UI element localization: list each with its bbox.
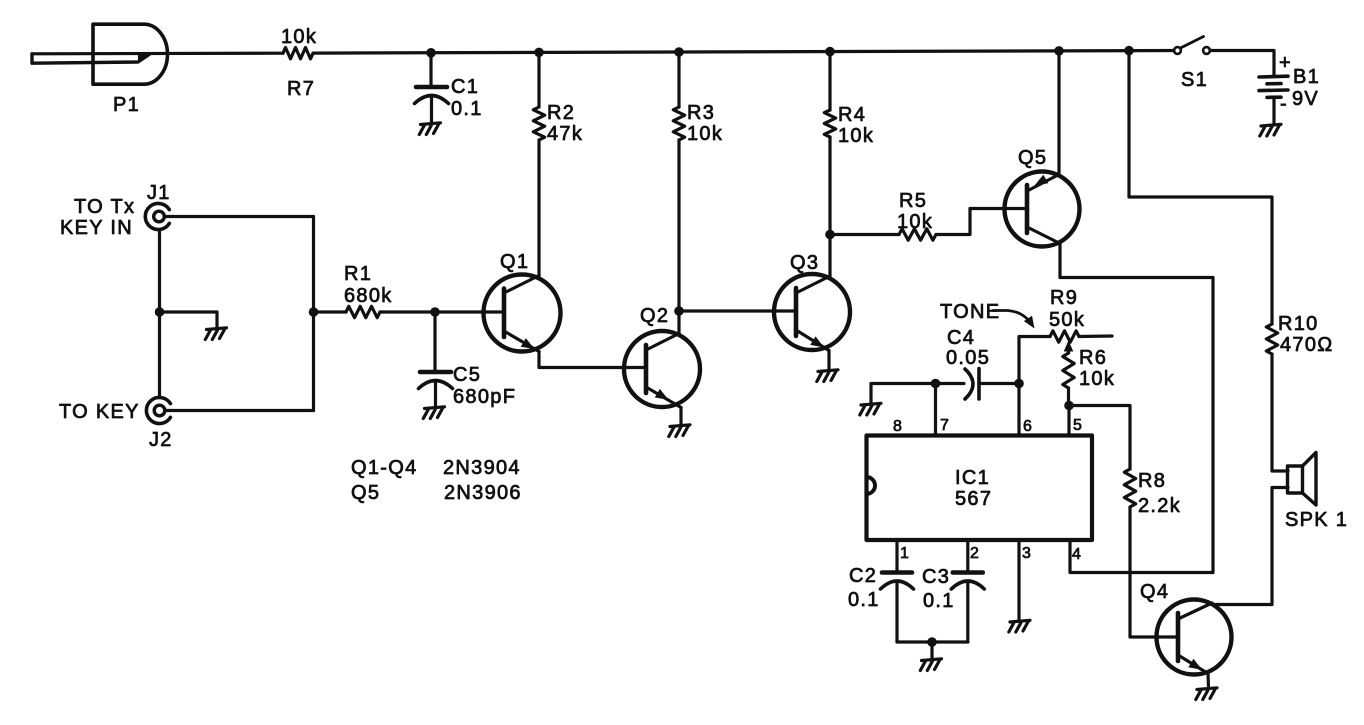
svg-text:C3: C3 (922, 566, 950, 588)
wire Q4 collector lead (1210, 603, 1213, 605)
resistor R2 (533, 107, 544, 140)
svg-text:2.2k: 2.2k (1138, 495, 1181, 517)
svg-text:R5: R5 (899, 190, 927, 212)
wire top supply rail main segment (R7 to S1) (313, 51, 1177, 54)
resistor R10 (1266, 324, 1277, 354)
switch S1 (1174, 37, 1210, 54)
svg-text:R9: R9 (1050, 287, 1078, 309)
svg-text:R10: R10 (1278, 313, 1319, 335)
svg-text:0.1: 0.1 (451, 98, 483, 120)
wire speaker return (1212, 488, 1288, 605)
wire pin 6 stub (1017, 384, 1020, 436)
ground Q4 (1196, 688, 1217, 700)
svg-text:C2: C2 (849, 565, 877, 587)
svg-text:6: 6 (1023, 418, 1033, 435)
wire ground to C4 (871, 384, 936, 404)
transistor Q5 (1005, 172, 1080, 247)
transistor Q1 (484, 275, 561, 352)
svg-text:R4: R4 (838, 104, 866, 126)
svg-text:680k: 680k (344, 285, 393, 307)
svg-text:8: 8 (893, 418, 903, 435)
svg-text:10k: 10k (838, 125, 874, 147)
jack J2 (146, 397, 170, 423)
svg-text:9V: 9V (1292, 88, 1319, 110)
node Q2 collector junction (674, 306, 684, 316)
wire R2 to Q1 collector (537, 140, 540, 277)
svg-text:Q1: Q1 (500, 251, 529, 273)
svg-text:TONE: TONE (940, 301, 1000, 323)
svg-text:R7: R7 (287, 78, 315, 100)
svg-text:7: 7 (940, 417, 950, 434)
svg-text:-: - (1280, 93, 1288, 115)
resistor R4 (824, 110, 835, 137)
wire pin 7 stub (934, 384, 937, 436)
svg-text:B1: B1 (1293, 66, 1320, 88)
wire C1 to ground (430, 97, 433, 123)
wire J1 tip to right vertical (165, 215, 314, 218)
node C4 left junction (pin 7) (931, 379, 941, 389)
op-amp IC1 body (867, 436, 1093, 541)
ground pin 3 (1009, 620, 1030, 632)
wire left vertical J1 to J2 (158, 230, 161, 398)
wire common ground stub (930, 642, 933, 658)
resistor R6 (1063, 353, 1074, 388)
node Q5 emitter junction on rail (1054, 46, 1064, 56)
node R6/pin5/R8 junction (1064, 401, 1074, 411)
wire Q5 collector down (1060, 244, 1213, 573)
svg-text:R2: R2 (547, 102, 575, 124)
wire battery to ground (1272, 99, 1275, 124)
wire R4 upper stub (828, 52, 831, 110)
wire R10 to speaker (1272, 354, 1288, 471)
wire R4 to R5 node (828, 137, 831, 235)
wire R8 to Q4 base (1130, 507, 1178, 637)
svg-text:10k: 10k (897, 211, 933, 233)
svg-text:0.05: 0.05 (946, 347, 990, 369)
wire C2-C3 common (897, 640, 968, 643)
capacitor C2 (882, 570, 912, 575)
svg-text:680pF: 680pF (453, 386, 516, 408)
node C4 right junction (pin 6) (1014, 379, 1024, 389)
speaker SPK1 (1288, 453, 1317, 506)
ground C1 (419, 123, 440, 135)
wire R8 top lead (1069, 406, 1130, 470)
svg-text:KEY IN: KEY IN (60, 217, 133, 239)
node R3 junction on rail (674, 47, 684, 57)
resistor R7 (283, 48, 313, 59)
node C1 junction on rail (426, 48, 436, 58)
svg-text:R8: R8 (1138, 470, 1166, 492)
svg-text:P1: P1 (113, 94, 140, 116)
wire C4 left lead (936, 382, 965, 385)
wire R9 right stub (1079, 334, 1112, 338)
wire Q2 emitter to ground (679, 408, 682, 425)
node R4/R5/Q3 junction (825, 230, 835, 240)
svg-text:C5: C5 (453, 364, 481, 386)
ground C2/C3 (920, 659, 941, 671)
svg-text:Q1-Q4: Q1-Q4 (351, 457, 418, 479)
wire R5 to Q5 base (936, 209, 1005, 235)
wire C3 bottom lead (966, 582, 969, 642)
wire C5 stub (433, 312, 436, 372)
svg-text:SPK 1: SPK 1 (1285, 509, 1348, 531)
capacitor C5 (420, 370, 451, 375)
wire top supply rail left segment (P1 to R7) (32, 52, 283, 56)
node Q1 base / C5 junction (430, 307, 440, 317)
wire pin 2 stub (966, 540, 969, 573)
wire Q1 emitter to Q2 base (539, 352, 646, 368)
wire C5 to ground (434, 382, 437, 407)
svg-text:R1: R1 (344, 263, 372, 285)
leader arrow TONE to R9 (993, 311, 1035, 329)
svg-text:C1: C1 (451, 76, 479, 98)
svg-text:2: 2 (970, 545, 980, 562)
wire right vertical of key loop (312, 217, 315, 411)
wire Q3 emitter to ground (827, 351, 830, 370)
wire R10 branch (1129, 51, 1272, 324)
wire Q4 emitter to ground (1206, 674, 1210, 688)
resistor R5 (899, 229, 936, 240)
wire R1 to Q1 base node (380, 310, 435, 313)
ground Q3 (817, 370, 838, 382)
resistor R9 (pot body) (1050, 331, 1079, 342)
wire pin 3 stub (1017, 540, 1020, 619)
wire Q2 collector riser (677, 311, 680, 334)
svg-text:+: + (1279, 52, 1292, 74)
wire R6 bottom stub (1067, 388, 1070, 406)
resistor R3 (673, 107, 684, 140)
resistor R1 (346, 306, 380, 317)
svg-text:4: 4 (1072, 546, 1082, 563)
wire Q5 emitter to rail (1057, 51, 1060, 175)
svg-text:C4: C4 (947, 327, 975, 349)
svg-text:470Ω: 470Ω (1280, 334, 1334, 356)
svg-text:TO KEY: TO KEY (59, 401, 140, 423)
ground C4 side (860, 403, 881, 415)
svg-text:Q4: Q4 (1140, 581, 1169, 603)
ground Q2 (669, 425, 690, 437)
wire C2 bottom lead (895, 582, 898, 642)
wire C4 right lead (979, 382, 1019, 385)
wire S1 to battery (1210, 51, 1274, 77)
wire base node to Q1 (435, 310, 504, 313)
svg-text:Q3: Q3 (790, 252, 819, 274)
node R4 junction on rail (825, 47, 835, 57)
wire pin 1 stub (895, 540, 898, 573)
wire R3 upper stub (677, 52, 680, 107)
svg-text:R3: R3 (687, 102, 715, 124)
svg-text:10k: 10k (1079, 368, 1115, 390)
wire pin 5 stub (1067, 406, 1070, 436)
wire Q2 collector to Q3 base (679, 309, 796, 312)
wire R2 upper stub (537, 52, 540, 107)
wire R5 left lead (830, 233, 899, 236)
svg-text:3: 3 (1022, 545, 1032, 562)
node R10 branch junction on rail (1124, 46, 1134, 56)
plug P1 tip (32, 54, 150, 63)
svg-text:0.1: 0.1 (848, 589, 880, 611)
ground C5 (423, 407, 444, 419)
svg-text:R6: R6 (1079, 347, 1107, 369)
svg-text:TO Tx: TO Tx (74, 196, 135, 218)
transistor Q4 (1157, 600, 1232, 675)
svg-text:Q2: Q2 (640, 305, 669, 327)
svg-text:2N3904: 2N3904 (443, 457, 521, 479)
svg-text:10k: 10k (281, 26, 317, 48)
svg-text:IC1: IC1 (955, 467, 990, 489)
capacitor C3 (953, 570, 983, 575)
svg-text:Q5: Q5 (1018, 147, 1047, 169)
resistor R8 (1124, 469, 1135, 507)
battery B1 (1259, 76, 1288, 97)
wire node to Q3 collector (828, 235, 831, 277)
ground key common (205, 328, 226, 340)
wire R9 left lead (1019, 337, 1050, 384)
wire R1 left lead (314, 310, 347, 313)
plug P1 inner chamfer fill (138, 54, 150, 62)
transistor Q2 (624, 331, 700, 408)
svg-text:5: 5 (1073, 417, 1083, 434)
capacitor C1 (416, 85, 447, 90)
wire C1 stub from rail (429, 53, 432, 87)
svg-text:2N3906: 2N3906 (444, 482, 522, 504)
svg-text:567: 567 (955, 488, 992, 510)
svg-text:J2: J2 (149, 429, 173, 451)
svg-text:10k: 10k (687, 123, 723, 145)
jack J1 (145, 204, 169, 230)
wire R3 to Q2 collector node (677, 140, 680, 311)
wire ground branch (160, 312, 218, 327)
capacitor C4 (965, 369, 979, 400)
transistor Q3 (774, 274, 850, 351)
svg-text:J1: J1 (147, 182, 171, 204)
node R1 takeoff junction (309, 307, 319, 317)
svg-text:47k: 47k (547, 123, 583, 145)
ground B1 (1260, 124, 1281, 136)
svg-text:0.1: 0.1 (923, 590, 955, 612)
plug P1 body (93, 24, 167, 84)
node C2/C3 ground junction (927, 637, 937, 647)
node R2 junction on rail (534, 48, 544, 58)
wire J2 tip to right vertical (165, 409, 314, 412)
svg-text:Q5: Q5 (351, 482, 380, 504)
svg-text:1: 1 (900, 545, 910, 562)
svg-text:S1: S1 (1181, 69, 1208, 91)
wiper arrow of pot R9 (1064, 341, 1074, 354)
svg-text:50k: 50k (1049, 309, 1085, 331)
node left ground junction (155, 307, 165, 317)
